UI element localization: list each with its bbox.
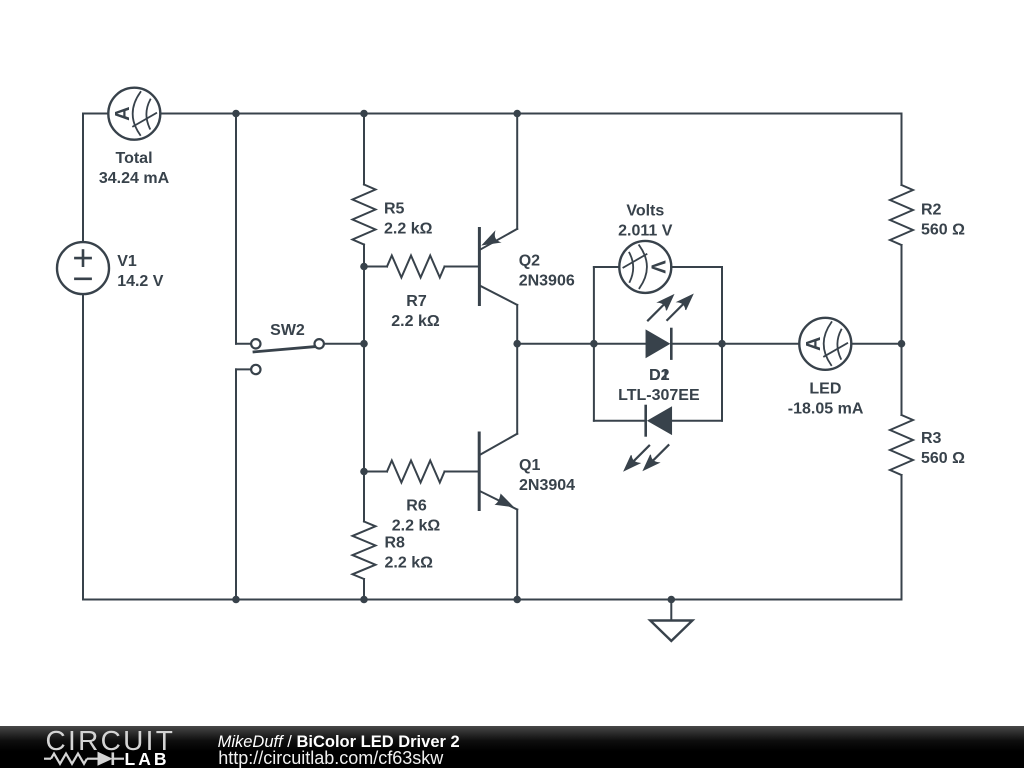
svg-text:LTL-307EE: LTL-307EE (618, 387, 700, 404)
wire R6 to Q1 base (445, 471, 479, 473)
wire bottom rail (83, 599, 902, 601)
ammeter U-LED (799, 318, 851, 370)
resistor R3 (890, 415, 913, 475)
svg-text:R5: R5 (384, 201, 405, 218)
node switch x364 (360, 340, 368, 348)
node LED box left (590, 340, 598, 348)
node R5 R7 (360, 263, 368, 271)
node LED box right (718, 340, 726, 348)
wire R5 to junction (363, 245, 365, 267)
node bottom x517 (513, 596, 521, 604)
voltage source V1 (57, 242, 109, 294)
svg-text:2N3906: 2N3906 (519, 273, 575, 290)
node R6 R8 (360, 468, 368, 476)
wire Q2 collector down (516, 305, 518, 344)
svg-text:V: V (646, 260, 668, 274)
wire LED row left (517, 343, 646, 345)
LED box top wire right (671, 266, 722, 268)
svg-text:A: A (112, 106, 134, 120)
wire Q1 emitter down (516, 510, 518, 600)
resistor R5 (353, 185, 376, 245)
svg-text:560 Ω: 560 Ω (921, 222, 965, 239)
LED box left vertical (593, 267, 595, 421)
ammeter U-Total (108, 88, 160, 140)
svg-text:-18.05 mA: -18.05 mA (788, 401, 864, 418)
wire switch to x=364 (324, 343, 364, 345)
node bottom x364 (360, 596, 368, 604)
svg-text:http://circuitlab.com/cf63skw: http://circuitlab.com/cf63skw (218, 748, 444, 768)
svg-text:Q2: Q2 (519, 253, 540, 270)
wire R6 junction to R6 (364, 471, 387, 473)
node top rail x517 (513, 110, 521, 118)
svg-text:2.2 kΩ: 2.2 kΩ (385, 555, 434, 572)
node top rail x236 (232, 110, 240, 118)
svg-text:Q1: Q1 (519, 457, 540, 474)
svg-text:D2: D2 (649, 367, 670, 384)
wire junction to R3 (901, 344, 903, 415)
resistor R2 (890, 185, 913, 245)
wire x=364 R6 to R8 (363, 472, 365, 522)
svg-text:Volts: Volts (626, 203, 664, 220)
switch SW2 (251, 339, 324, 374)
label D2 overprint (649, 367, 670, 384)
svg-text:2.011 V: 2.011 V (618, 223, 673, 240)
svg-text:R2: R2 (921, 202, 942, 219)
svg-text:R3: R3 (921, 430, 942, 447)
wire left rail upper (82, 114, 84, 243)
wire R8 to bottom rail (363, 579, 365, 600)
svg-text:A: A (803, 337, 825, 351)
node ground (668, 596, 676, 604)
LED box top wire left (594, 266, 620, 268)
svg-text:R7: R7 (406, 293, 427, 310)
voltmeter Volts (619, 241, 671, 293)
svg-text:560 Ω: 560 Ω (921, 450, 965, 467)
wire x=364 above R5 (363, 114, 365, 185)
transistor Q1 (479, 433, 517, 510)
svg-text:V1: V1 (117, 253, 137, 270)
LED arrows down (624, 445, 668, 471)
wire x=236 lower (235, 369, 237, 599)
svg-text:SW2: SW2 (270, 322, 305, 339)
wire top rail right of ammeter (160, 113, 901, 115)
resistor R6 (387, 461, 445, 483)
LED box bottom wire left (594, 420, 646, 422)
wire Q2 emitter up (516, 114, 518, 229)
wire junction to R7 (364, 266, 387, 268)
resistor R7 (387, 256, 445, 278)
svg-text:Total: Total (115, 150, 152, 167)
svg-text:2.2 kΩ: 2.2 kΩ (392, 518, 441, 535)
svg-text:2.2 kΩ: 2.2 kΩ (384, 221, 433, 238)
wire R7 to Q2 base (445, 266, 479, 268)
svg-text:R8: R8 (385, 535, 406, 552)
wire switch lower stub (236, 368, 251, 370)
transistor Q2 (479, 229, 517, 305)
node Q collectors (513, 340, 521, 348)
wire R3 to bottom rail (901, 475, 903, 600)
wire LED row right of ammeter (851, 343, 901, 345)
logo resistor-diode (44, 752, 124, 765)
wire switch top stub (236, 343, 251, 345)
svg-text:R6: R6 (406, 498, 427, 515)
svg-text:LED: LED (809, 381, 841, 398)
LED box bottom wire right (671, 420, 722, 422)
svg-text:2N3904: 2N3904 (519, 477, 575, 494)
wire left rail lower (82, 294, 84, 600)
wire Q1 collector up (516, 344, 518, 434)
wire x=364 middle (363, 267, 365, 472)
LED arrows up (648, 295, 693, 321)
wire R2 to junction (901, 245, 903, 344)
svg-text:2.2 kΩ: 2.2 kΩ (391, 313, 440, 330)
ground (650, 600, 692, 641)
wire top rail left of ammeter (83, 113, 109, 115)
node top rail x364 (360, 110, 368, 118)
wire x=236 upper (235, 114, 237, 344)
LED box right vertical (721, 267, 723, 421)
svg-text:LAB: LAB (125, 749, 170, 768)
wire LED row middle (671, 343, 799, 345)
footer bar (0, 726, 1024, 768)
wire right rail above R2 (901, 114, 903, 186)
resistor R8 (353, 522, 376, 580)
svg-text:34.24 mA: 34.24 mA (99, 170, 170, 187)
svg-text:14.2 V: 14.2 V (117, 273, 164, 290)
LED D2 top diode (646, 329, 671, 359)
node bottom x236 (232, 596, 240, 604)
node R2 R3 (898, 340, 906, 348)
LED D2 bottom diode (646, 406, 672, 435)
